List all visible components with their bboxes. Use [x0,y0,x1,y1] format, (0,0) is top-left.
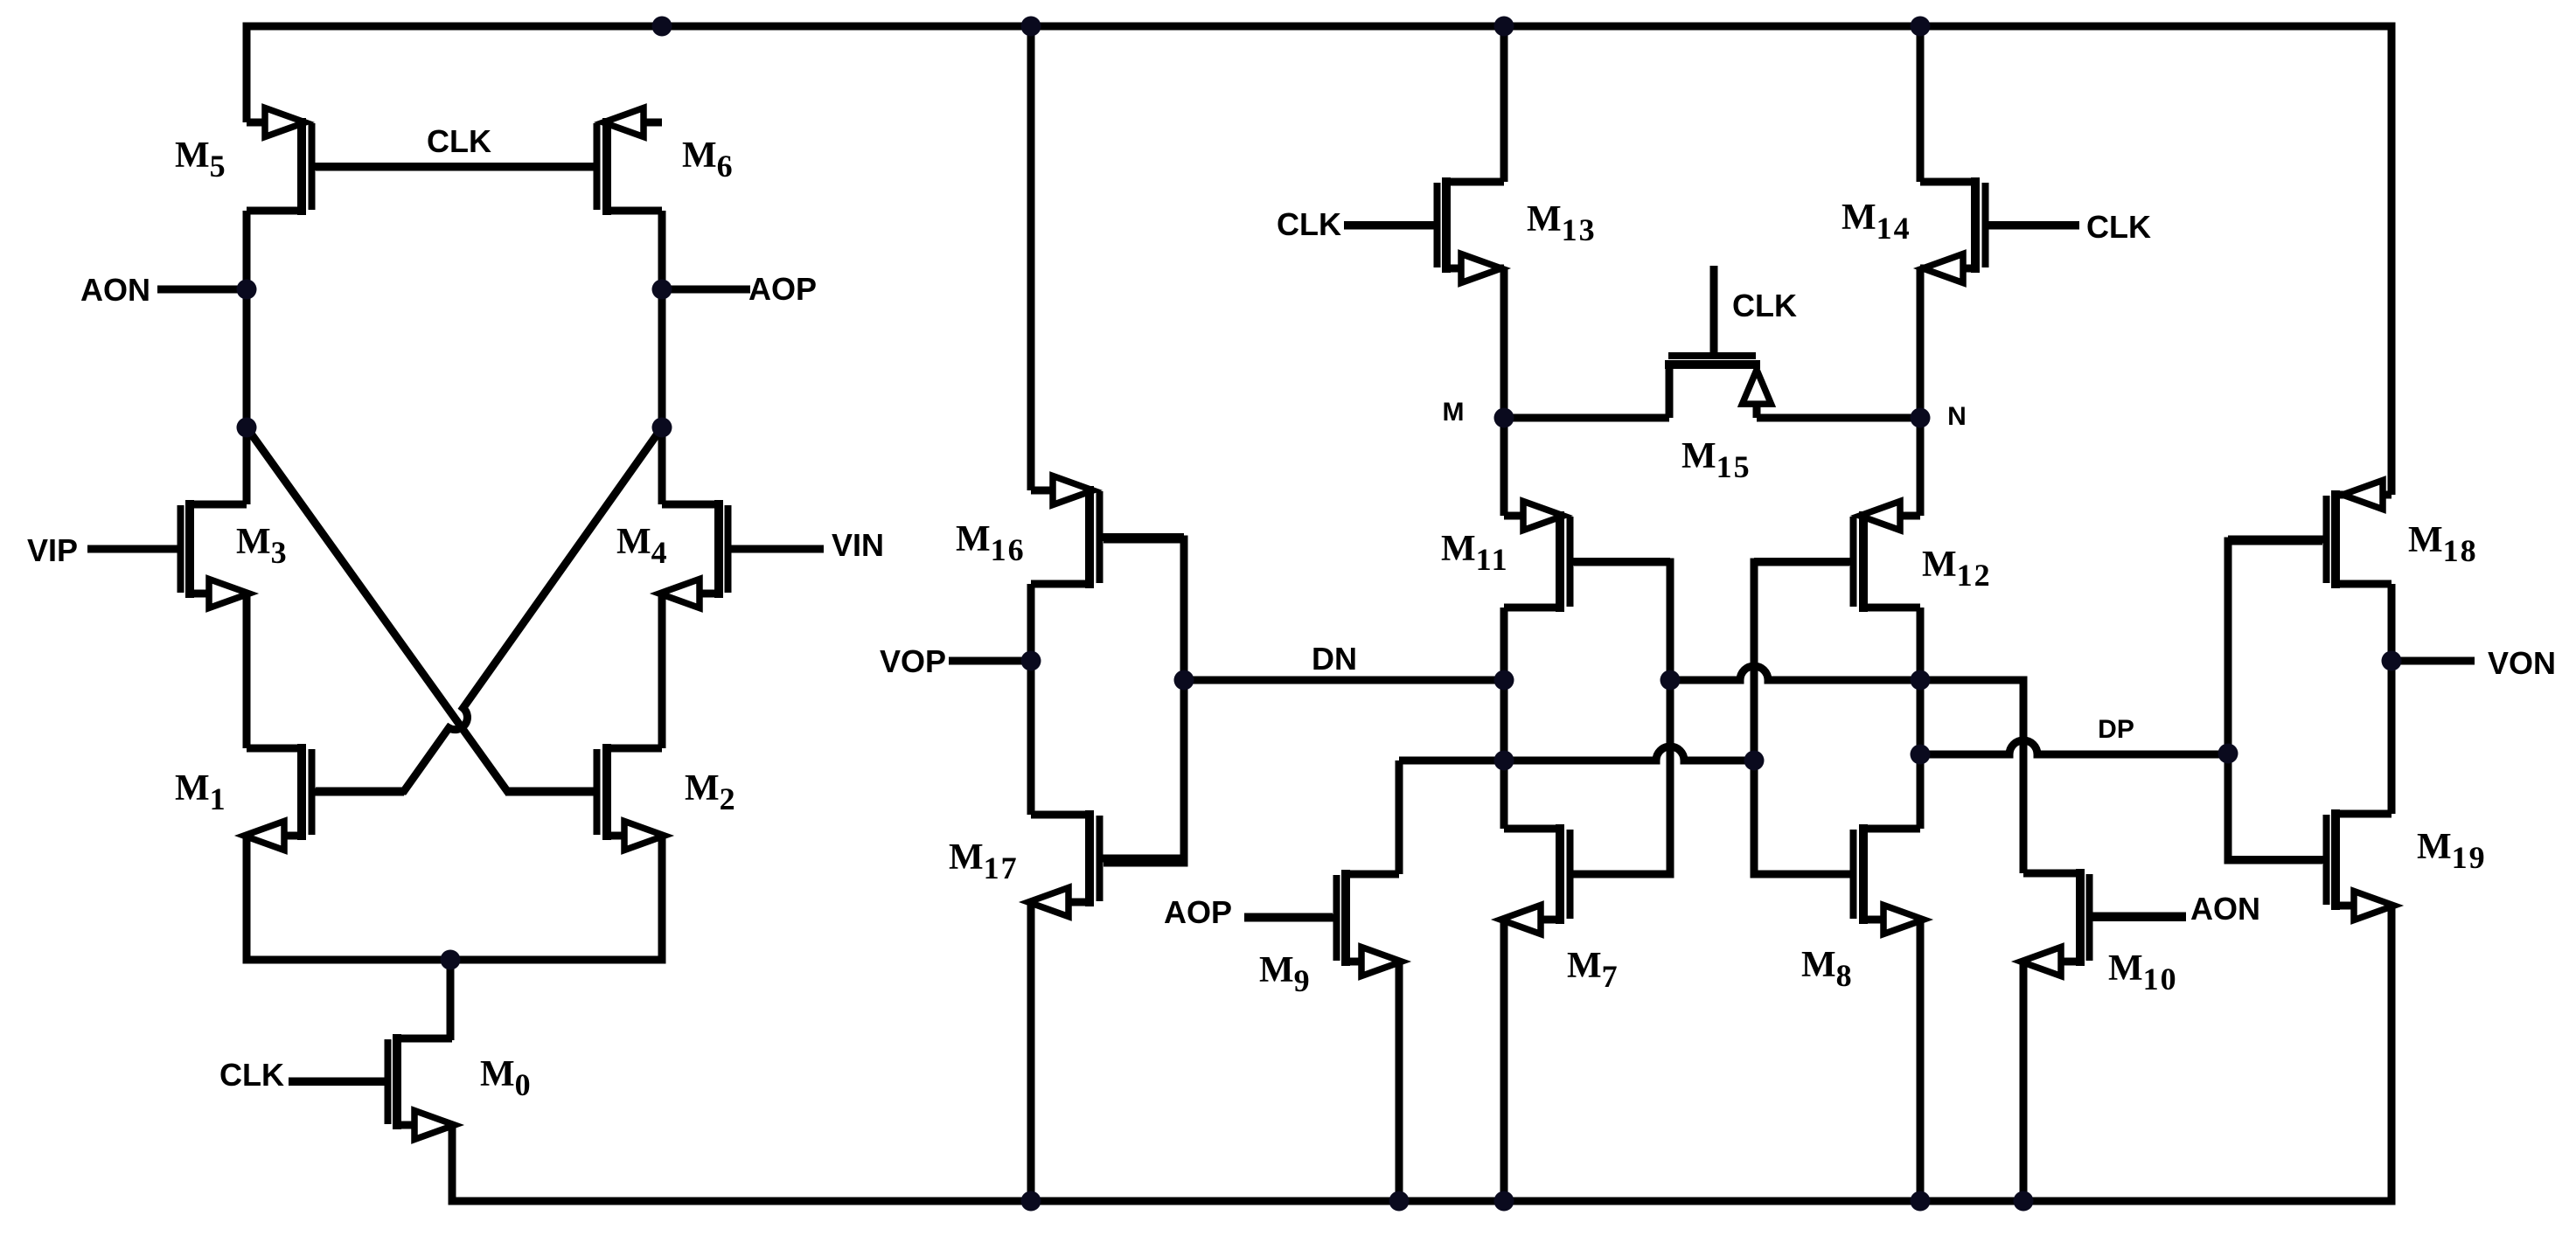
wire M18-M19 gate tie [2228,541,2322,860]
svg-text:CLK: CLK [1732,288,1797,323]
junction DN / M11 drain [1494,670,1514,691]
wire M9 drain riser [1396,760,1403,874]
junction DN2 / M12 gate tie [1744,751,1765,771]
svg-text:CLK: CLK [427,123,491,159]
wire M14/M12/M8 column [1917,22,1925,1201]
wire left column lower [243,594,251,748]
wire node DN [1184,677,1504,684]
svg-text:DN: DN [1312,641,1357,677]
junction DP lower / M12 column [1911,745,1931,765]
transistor M11 [1504,502,1670,613]
svg-text:VIP: VIP [27,532,78,568]
node AOP [652,280,672,300]
wire node M link [1504,414,1669,422]
wire VOP lead [949,657,1031,665]
wire node DP upper (hop over M12 gate tie) [1670,666,2023,873]
wire right column upper (AOP node) [658,211,666,504]
junction bottom rail / M9 [1389,1191,1410,1212]
transistor M1 [244,744,404,851]
wire VIN lead [728,545,824,553]
junction DP lower / M18-M19 gate tie [2218,744,2238,764]
junction bottom rail / M7 [1494,1191,1514,1212]
junction top rail / M13 [1494,17,1514,37]
junction DN / gate tie M16-M17 [1174,670,1194,691]
svg-text:VOP: VOP [880,643,946,679]
transistor M19 [2228,809,2394,920]
transistor M5 [247,108,594,216]
wire right column lower [658,594,666,748]
wire left column upper (AON node) [243,211,251,504]
wire M12-M8 gate tie [1754,562,1849,874]
svg-text:CLK: CLK [1277,206,1341,242]
wire M10 source drop [2020,962,2028,1201]
wire CLK lead M13 [1344,222,1434,230]
wire node DP lower (hop over M10 drain riser) [1920,740,2228,754]
wire tail stub [447,960,455,1040]
transistor M7 [1500,824,1670,934]
junction DP upper / M12 column [1911,670,1931,691]
transistor M14 [1920,177,2079,283]
junction M3 drain / cross-couple [237,418,257,438]
junction DN2 / M11 drain column [1494,751,1514,771]
wire CLK lead M0 [289,1078,385,1086]
transistor M3 [87,500,249,608]
wire node DN2 (hop over M11 gate tie) [1399,746,1754,760]
wire latch tail bus [247,836,662,960]
wire AOP lead [662,286,750,294]
wire AON lead [157,286,247,294]
transistor M12 [1754,502,1920,613]
svg-text:DP: DP [2098,715,2134,744]
svg-text:AON: AON [80,272,150,308]
svg-text:VON: VON [2488,645,2556,681]
node AON [237,280,257,300]
wire VIP lead [87,545,182,553]
svg-text:M: M [1443,398,1465,427]
junction latch tail [441,950,461,970]
transistor M6 [316,108,662,216]
junction top rail / M14 [1911,17,1931,37]
svg-text:CLK: CLK [2086,209,2151,245]
transistor M0 [289,1034,455,1140]
wire M9 source drop [1396,962,1403,1201]
junction bottom rail / M10 [2014,1191,2034,1212]
wire VON lead [2392,657,2475,665]
wire M11-M7 gate tie (crosses DN2 with dot, hops none) [1574,562,1670,874]
wire VDD top rail [247,26,2392,495]
junction M4 drain / cross-couple [652,418,672,438]
transistor M13 [1344,177,1504,283]
wire cross-couple diagonal to M2 gate [247,427,594,791]
wire cross-couple diagonal from M1 gate (with hop) [316,427,662,791]
node N [1911,408,1931,428]
junction top rail / M6 [652,17,672,37]
wire CLK lead M14 [1988,222,2079,230]
transistor M15 [1665,266,1772,418]
junction DP upper / M11 gate tie [1660,670,1681,691]
transistor M9 [1244,870,1402,976]
transistor M17 [1028,810,1184,917]
transistor M4 [659,500,824,608]
svg-text:AON: AON [2190,891,2260,927]
wire AON lead M10 [2091,913,2186,920]
wire M18/M19 column mid [2388,584,2396,814]
wire node N link [1757,414,1920,422]
transistor M8 [1754,824,1924,934]
svg-text:N: N [1947,402,1967,431]
transistor M10 [2021,869,2186,976]
svg-text:CLK: CLK [219,1057,284,1093]
svg-text:AOP: AOP [1164,894,1232,930]
junction top rail / M16 [1021,17,1041,37]
node VOP [1021,651,1041,671]
wire M16-M17 gate tie [1104,539,1184,863]
svg-text:VIN: VIN [832,527,884,563]
transistor M2 [505,744,665,851]
node VON [2382,651,2402,671]
junction bottom rail / M8 [1911,1191,1931,1212]
svg-text:AOP: AOP [748,271,817,307]
wire AOP lead M9 [1244,913,1333,921]
wire CLK line M5-M6 [316,163,594,171]
junction bottom rail / M17 [1021,1191,1041,1212]
node M [1494,408,1514,428]
transistor M18 [2228,481,2392,589]
wire M16/M17 column [1027,22,1035,1201]
transistor M16 [1031,476,1184,589]
wire M13/M11/M7 column [1500,22,1508,1201]
wire ground bottom rail [452,906,2392,1201]
